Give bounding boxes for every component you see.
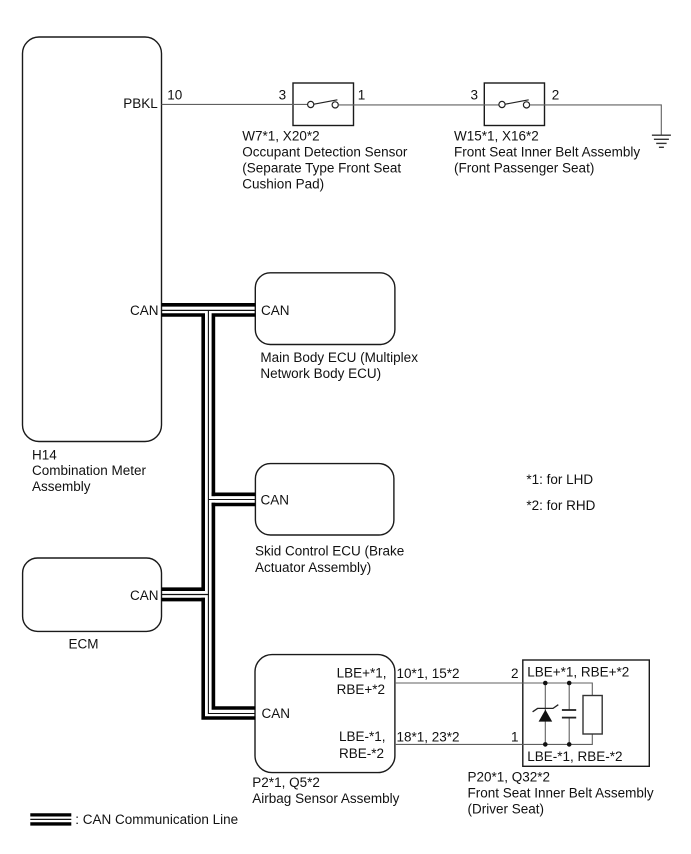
svg-text:Skid Control ECU (Brake: Skid Control ECU (Brake bbox=[255, 544, 404, 559]
switch W7 blade bbox=[314, 100, 338, 104]
svg-text:CAN: CAN bbox=[130, 588, 159, 603]
svg-text:10: 10 bbox=[167, 88, 182, 103]
capacitor branch wires bbox=[568, 683, 570, 710]
svg-text:W7*1, X20*2: W7*1, X20*2 bbox=[242, 128, 319, 143]
svg-text:3: 3 bbox=[470, 88, 478, 103]
svg-text:ECM: ECM bbox=[69, 636, 99, 651]
CAN bus: bottom thick right + right vertical upper bbox=[213, 315, 255, 496]
svg-text:10*1, 15*2: 10*1, 15*2 bbox=[397, 666, 460, 681]
resistor R1 bbox=[583, 696, 602, 735]
legend CAN line symbol bbox=[30, 813, 71, 816]
wire sensor to belt switch bbox=[338, 104, 499, 106]
CAN bus: thin vertical + thin elbow into airbag bbox=[208, 310, 255, 713]
ground bbox=[652, 135, 671, 147]
wire PBKL from meter to sensor bbox=[162, 103, 308, 105]
svg-text:H14: H14 bbox=[32, 447, 57, 462]
CAN bus: top horizontal thick line bbox=[162, 303, 256, 307]
CAN bus: bottom thick left + left vertical upper bbox=[162, 315, 204, 591]
svg-text:LBE+*1, RBE+*2: LBE+*1, RBE+*2 bbox=[527, 664, 629, 679]
diode branch wire bbox=[544, 683, 546, 744]
svg-text:CAN: CAN bbox=[261, 493, 290, 508]
svg-text:(Driver Seat): (Driver Seat) bbox=[468, 802, 545, 817]
main body ECU box bbox=[255, 273, 395, 345]
svg-text:CAN: CAN bbox=[262, 706, 291, 721]
capacitor C1 plates bbox=[562, 709, 576, 711]
svg-text:: CAN Communication Line: : CAN Communication Line bbox=[75, 812, 238, 827]
svg-text:(Separate Type Front Seat: (Separate Type Front Seat bbox=[242, 161, 401, 176]
switch W7 contacts bbox=[308, 101, 314, 107]
skid control ECU box bbox=[255, 464, 394, 535]
svg-text:P20*1, Q32*2: P20*1, Q32*2 bbox=[468, 770, 551, 785]
svg-text:18*1, 23*2: 18*1, 23*2 bbox=[397, 730, 460, 745]
svg-text:Front Seat Inner Belt Assembly: Front Seat Inner Belt Assembly bbox=[468, 786, 654, 801]
svg-text:3: 3 bbox=[279, 88, 287, 103]
svg-text:Occupant Detection Sensor: Occupant Detection Sensor bbox=[242, 145, 408, 160]
svg-text:1: 1 bbox=[358, 88, 366, 103]
CAN branch to skid control ECU bbox=[212, 492, 256, 496]
belt box internal top wire to resistor bbox=[523, 683, 593, 696]
wire airbag to belt box bottom bbox=[395, 743, 523, 745]
svg-text:LBE-*1,: LBE-*1, bbox=[339, 729, 386, 744]
front seat inner belt assembly (driver seat) box bbox=[523, 660, 650, 766]
junction dots bbox=[543, 681, 548, 686]
svg-text:Main Body ECU (Multiplex: Main Body ECU (Multiplex bbox=[260, 350, 418, 365]
svg-text:Cushion Pad): Cushion Pad) bbox=[242, 177, 324, 192]
svg-text:LBE+*1,: LBE+*1, bbox=[337, 666, 387, 681]
svg-text:Airbag Sensor Assembly: Airbag Sensor Assembly bbox=[252, 791, 399, 806]
zener diode D1 bar bbox=[533, 705, 559, 712]
CAN branch to ECM bbox=[162, 587, 206, 591]
svg-text:P2*1, Q5*2: P2*1, Q5*2 bbox=[252, 775, 320, 790]
svg-text:RBE-*2: RBE-*2 bbox=[339, 746, 384, 761]
svg-text:1: 1 bbox=[511, 730, 519, 745]
switch W15 blade bbox=[505, 100, 529, 104]
svg-text:*2: for RHD: *2: for RHD bbox=[526, 498, 595, 513]
zener diode D1 triangle bbox=[539, 710, 553, 722]
switch W15 contacts bbox=[499, 101, 505, 107]
wire belt switch to ground bbox=[530, 105, 662, 135]
svg-text:PBKL: PBKL bbox=[123, 96, 158, 111]
svg-text:*1: for LHD: *1: for LHD bbox=[526, 472, 593, 487]
svg-text:W15*1, X16*2: W15*1, X16*2 bbox=[454, 128, 539, 143]
wire airbag to belt box top bbox=[395, 682, 523, 684]
front seat inner belt switch box W15 bbox=[484, 83, 544, 126]
svg-text:RBE+*2: RBE+*2 bbox=[337, 682, 385, 697]
CAN bus: top horizontal thin line bbox=[162, 309, 256, 311]
svg-text:LBE-*1, RBE-*2: LBE-*1, RBE-*2 bbox=[527, 749, 622, 764]
svg-text:Actuator Assembly): Actuator Assembly) bbox=[255, 560, 371, 575]
svg-text:2: 2 bbox=[552, 88, 560, 103]
svg-text:Network Body ECU): Network Body ECU) bbox=[260, 366, 381, 381]
svg-text:CAN: CAN bbox=[261, 303, 290, 318]
svg-text:CAN: CAN bbox=[130, 303, 159, 318]
svg-text:Combination Meter: Combination Meter bbox=[32, 463, 147, 478]
airbag sensor assembly box bbox=[255, 655, 395, 773]
CAN bus: right vertical lower + elbow top into airbag bbox=[213, 503, 255, 708]
CAN bus: left vertical lower + elbow bottom into airbag bbox=[203, 598, 255, 718]
svg-text:Front Seat Inner Belt Assembly: Front Seat Inner Belt Assembly bbox=[454, 145, 640, 160]
ECM box bbox=[23, 558, 162, 631]
occupant detection sensor switch box W7 bbox=[293, 83, 354, 126]
svg-text:Assembly: Assembly bbox=[32, 479, 91, 494]
svg-text:2: 2 bbox=[511, 666, 519, 681]
combination meter assembly box H14 bbox=[23, 37, 162, 442]
belt box internal bottom wire to resistor bbox=[523, 734, 593, 744]
svg-text:(Front Passenger Seat): (Front Passenger Seat) bbox=[454, 161, 594, 176]
